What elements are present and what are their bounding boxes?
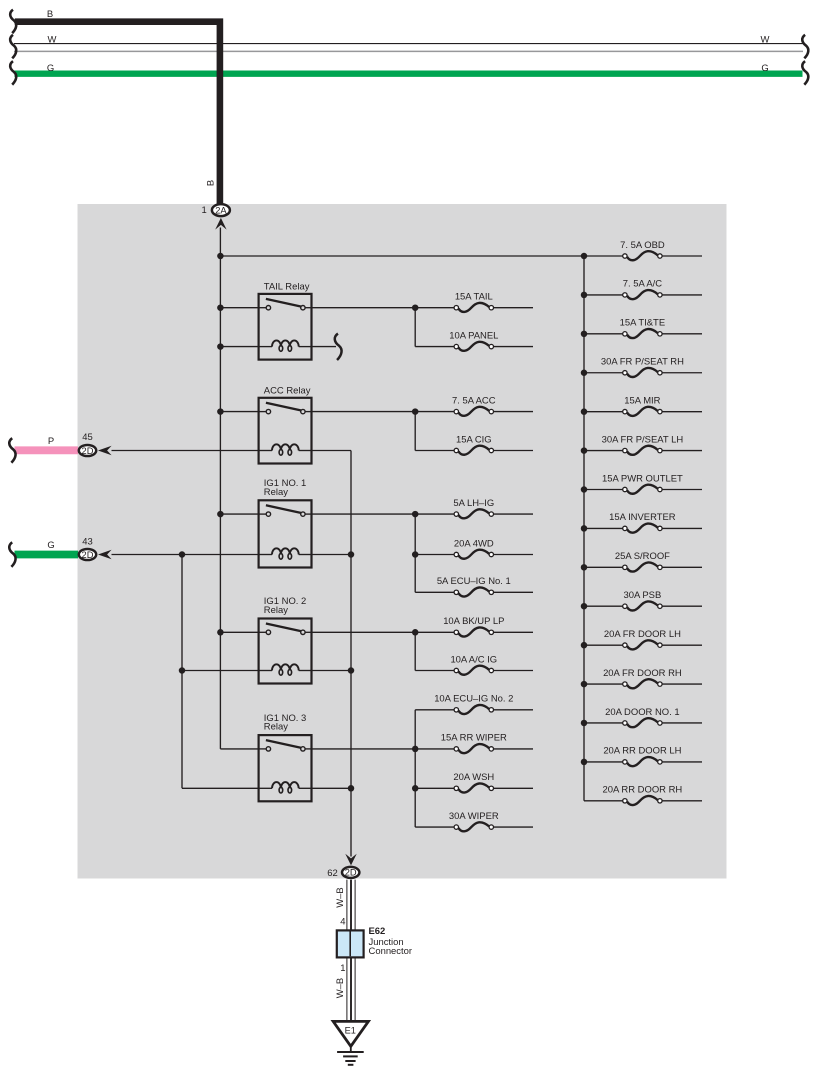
junction IG2 fuses [412,629,419,636]
wire WSH row [415,787,454,789]
wire-end W right [802,35,808,59]
relay ACC [259,385,312,463]
wire: main B+ bus vertical [219,228,221,749]
svg-text:15A CIG: 15A CIG [456,434,492,445]
junction bus/IG1-1 switch [217,511,224,518]
relay IG1 NO.3 [259,713,312,802]
ground E1 [333,1021,368,1064]
svg-text:G: G [47,540,54,551]
wire: row 20A RR DOOR RH [584,800,623,802]
wire W (upper outline) [14,43,803,45]
wire-end G left (2D43) [9,542,15,567]
svg-text:10A BK/UP LP: 10A BK/UP LP [443,616,504,627]
wire: row 20A DOOR NO. 1 [584,722,623,724]
junction on ground drop 3 [348,785,355,792]
svg-text:15A RR WIPER: 15A RR WIPER [441,733,507,744]
fuse 5A LH-IG [453,498,494,518]
wire IG1-1 coil->drop [312,554,352,556]
wire W-B (E62 to E1) [347,957,355,1021]
svg-text:43: 43 [82,536,93,547]
junction WSH row [412,785,419,792]
wire: row 20A RR DOOR LH [584,761,623,763]
wire CIG row [415,450,454,452]
svg-text:2D: 2D [345,868,357,878]
junction IG3 fuses [412,746,419,753]
svg-text:30A FR P/SEAT LH: 30A FR P/SEAT LH [602,434,684,445]
wire ACC switch out [312,411,416,413]
wire IG1-2 switch out [312,631,416,633]
wire: row 30A PSB [584,605,623,607]
wire G (green bus) [15,70,803,76]
svg-text:20A 4WD: 20A 4WD [454,538,494,549]
wire bus->IG1-2 switch [220,631,258,633]
svg-text:20A FR DOOR LH: 20A FR DOOR LH [604,629,681,640]
fuse 20A WSH [453,772,494,792]
fuse 15A PWR OUTLET [602,473,683,493]
svg-text:B: B [47,9,53,20]
svg-text:25A S/ROOF: 25A S/ROOF [615,551,670,562]
svg-text:7. 5A OBD: 7. 5A OBD [620,240,665,251]
svg-text:7. 5A A/C: 7. 5A A/C [623,279,663,290]
fuse 25A S/ROOF [615,551,670,571]
wire ECU-IG No.1 row [415,591,454,593]
wire: row 15A INVERTER [584,527,623,529]
wire bus->TAIL coil [220,346,258,348]
wire: IG3 fuse vertical [414,710,416,827]
wire WIPER row [415,826,454,828]
svg-text:45: 45 [82,432,93,443]
wire TAIL coil out [312,346,337,348]
fuse 10A ECU-IG No.2 [434,694,513,714]
fuse 7. 5A OBD [620,240,665,260]
junction TAIL fuses [412,304,419,311]
svg-text:2D: 2D [82,550,94,560]
relay IG1 NO.2 [259,596,312,683]
svg-text:W–B: W–B [335,887,346,907]
svg-text:4: 4 [340,916,345,927]
wire B (thick black from battery) [15,22,220,204]
connector 2D pin43 [79,549,96,560]
svg-text:TAIL Relay: TAIL Relay [264,281,310,292]
fuse 15A MIR [623,395,662,415]
svg-text:15A INVERTER: 15A INVERTER [609,512,676,523]
wire: row 20A FR DOOR RH [584,683,623,685]
wire-end TAIL coil (continues) [335,334,342,361]
wire: feed to right fuse bank [220,255,584,257]
svg-text:15A TAIL: 15A TAIL [455,292,493,303]
wire 4WD row [415,554,454,556]
fuse 30A WIPER [449,811,499,831]
fuse 20A RR DOOR RH [603,785,683,805]
junction IG feed/IG2 coil [179,667,186,674]
wire W (lower outline) [14,50,803,52]
wire: row 25A S/ROOF [584,566,623,568]
fuse 15A INVERTER [609,512,676,532]
svg-text:W: W [761,34,770,45]
wire: row 20A FR DOOR LH [584,644,623,646]
svg-text:Relay: Relay [264,722,288,733]
wire IG3 coil->drop [312,787,352,789]
svg-text:20A RR DOOR LH: 20A RR DOOR LH [603,746,681,757]
wire IG1-1 switch out [312,513,416,515]
junction bus/TAIL coil [217,343,224,350]
wire PANEL row [415,346,454,348]
wire down to PANEL row [414,308,416,347]
svg-text:62: 62 [327,868,338,879]
svg-text:2D: 2D [82,446,94,456]
svg-text:1: 1 [201,205,206,216]
junction bus/TAIL switch [217,304,224,311]
fuse 15A RR WIPER [441,733,507,753]
fuse 15A CIG [454,434,493,454]
arrow into 2D-45 (left) [98,446,112,456]
connector 2D pin45 [79,445,96,456]
wire: coil ground drop vertical [350,451,352,857]
svg-text:15A MIR: 15A MIR [624,395,660,406]
junction bus/IG1-2 switch [217,629,224,636]
wire-end W left [10,35,16,59]
wire-end B left [10,10,16,34]
connector 2D pin62 [342,867,359,878]
fuse 20A FR DOOR RH [603,668,682,688]
relay TAIL [259,281,312,359]
fuse 10A BK/UP LP [443,616,504,636]
svg-text:W: W [48,34,57,45]
wire: row 15A MIR [584,411,623,413]
svg-text:Relay: Relay [264,487,288,498]
relay IG1 NO.1 [259,478,312,568]
wire: row 7. 5A A/C [584,294,623,296]
junction IG1 fuses [412,511,419,518]
wire bus->IG1-1 switch [220,513,258,515]
fuse 15A TI&amp;TE [620,318,665,338]
svg-text:30A FR P/SEAT RH: 30A FR P/SEAT RH [601,357,684,368]
wire ECU-IG No.2 row [415,709,454,711]
svg-text:20A DOOR NO. 1: 20A DOOR NO. 1 [605,707,679,718]
svg-text:20A FR DOOR RH: 20A FR DOOR RH [603,668,682,679]
svg-text:7. 5A ACC: 7. 5A ACC [452,395,496,406]
fuse 20A DOOR NO. 1 [605,707,679,727]
wire TAIL switch out [312,307,416,309]
wire: IG feed vertical [181,555,183,789]
wire: row 15A TI&amp;TE [584,333,623,335]
svg-text:30A WIPER: 30A WIPER [449,811,499,822]
svg-text:B: B [206,180,217,186]
junction ACC fuses [412,408,419,415]
fuse 20A FR DOOR LH [604,629,681,649]
fuse 7.5A ACC [452,395,496,415]
svg-text:10A ECU–IG No. 2: 10A ECU–IG No. 2 [434,694,513,705]
junction 4WD row [412,551,419,558]
svg-text:5A LH–IG: 5A LH–IG [453,498,494,509]
fuse 30A FR P/SEAT RH [601,357,684,377]
junction connector E62 [337,930,364,957]
svg-text:E1: E1 [345,1025,356,1035]
svg-text:15A TI&TE: 15A TI&TE [620,318,665,329]
svg-text:Relay: Relay [264,605,288,616]
wire: row 30A FR P/SEAT LH [584,450,623,452]
arrow into 2D-43 (left) [98,550,112,560]
svg-text:G: G [47,63,54,74]
svg-text:15A PWR OUTLET: 15A PWR OUTLET [602,473,683,484]
arrow into 2D-62 (down) [345,854,356,866]
svg-text:G: G [761,63,768,74]
svg-text:30A PSB: 30A PSB [624,590,662,601]
junction on bus @256 [217,253,224,260]
junction IG feed drop [179,551,186,558]
svg-text:P: P [48,436,54,447]
wire G (green) to ignition switch [15,551,79,559]
wire IG1-3 switch out [312,748,416,750]
junction on ground drop [348,551,355,558]
wire: row 15A PWR OUTLET [584,488,623,490]
svg-text:2A: 2A [215,205,227,215]
wire-end G right [802,61,808,85]
fuse 5A ECU-IG No.1 [437,576,511,596]
fuse 15A TAIL [454,292,493,312]
junction block (gray box) [78,204,727,879]
fuse 7. 5A A/C [623,279,663,299]
svg-text:W–B: W–B [335,978,346,998]
wire IG2 coil->drop [312,670,352,672]
fuse 20A RR DOOR LH [603,746,681,766]
junction bus/ACC switch [217,408,224,415]
wire bus->IG1-3 switch [220,748,258,750]
wire P (pink) to ignition switch [15,446,79,454]
wire W-B (2D62 to E62) [347,880,355,931]
svg-text:E62: E62 [369,926,386,937]
wire-end G left [10,61,16,85]
wire A/C IG row [415,670,454,672]
wire 2D45->ACC coil [112,450,259,452]
wire IGfeed->IG2 coil [182,670,259,672]
arrow into 2A (male connector, up) [215,218,226,230]
svg-text:20A RR DOOR RH: 20A RR DOOR RH [603,785,683,796]
svg-text:20A WSH: 20A WSH [453,772,494,783]
svg-text:1: 1 [340,963,345,974]
wire: right fuse bank bus [583,256,585,801]
fuse 30A FR P/SEAT LH [602,434,684,454]
wire bus->TAIL switch [220,307,258,309]
wire IGfeed->IG3 coil [182,787,259,789]
svg-text:ACC Relay: ACC Relay [264,385,311,396]
svg-text:10A A/C IG: 10A A/C IG [450,654,497,665]
fuse 10A A/C IG [450,654,497,674]
wire 2D43->IG1-1 coil [112,554,259,556]
fuse 30A PSB [623,590,662,610]
connector 2A [212,204,230,216]
svg-text:5A ECU–IG No. 1: 5A ECU–IG No. 1 [437,576,511,587]
svg-text:10A PANEL: 10A PANEL [449,330,498,341]
junction on ground drop 2 [348,667,355,674]
wire: row 30A FR P/SEAT RH [584,372,623,374]
wire-end P left [9,438,15,463]
svg-text:Connector: Connector [369,946,413,957]
fuse 20A 4WD [454,538,494,558]
wire ACC coil->drop [312,450,352,452]
wire bus->ACC switch [220,411,258,413]
fuse 10A PANEL [449,330,498,350]
